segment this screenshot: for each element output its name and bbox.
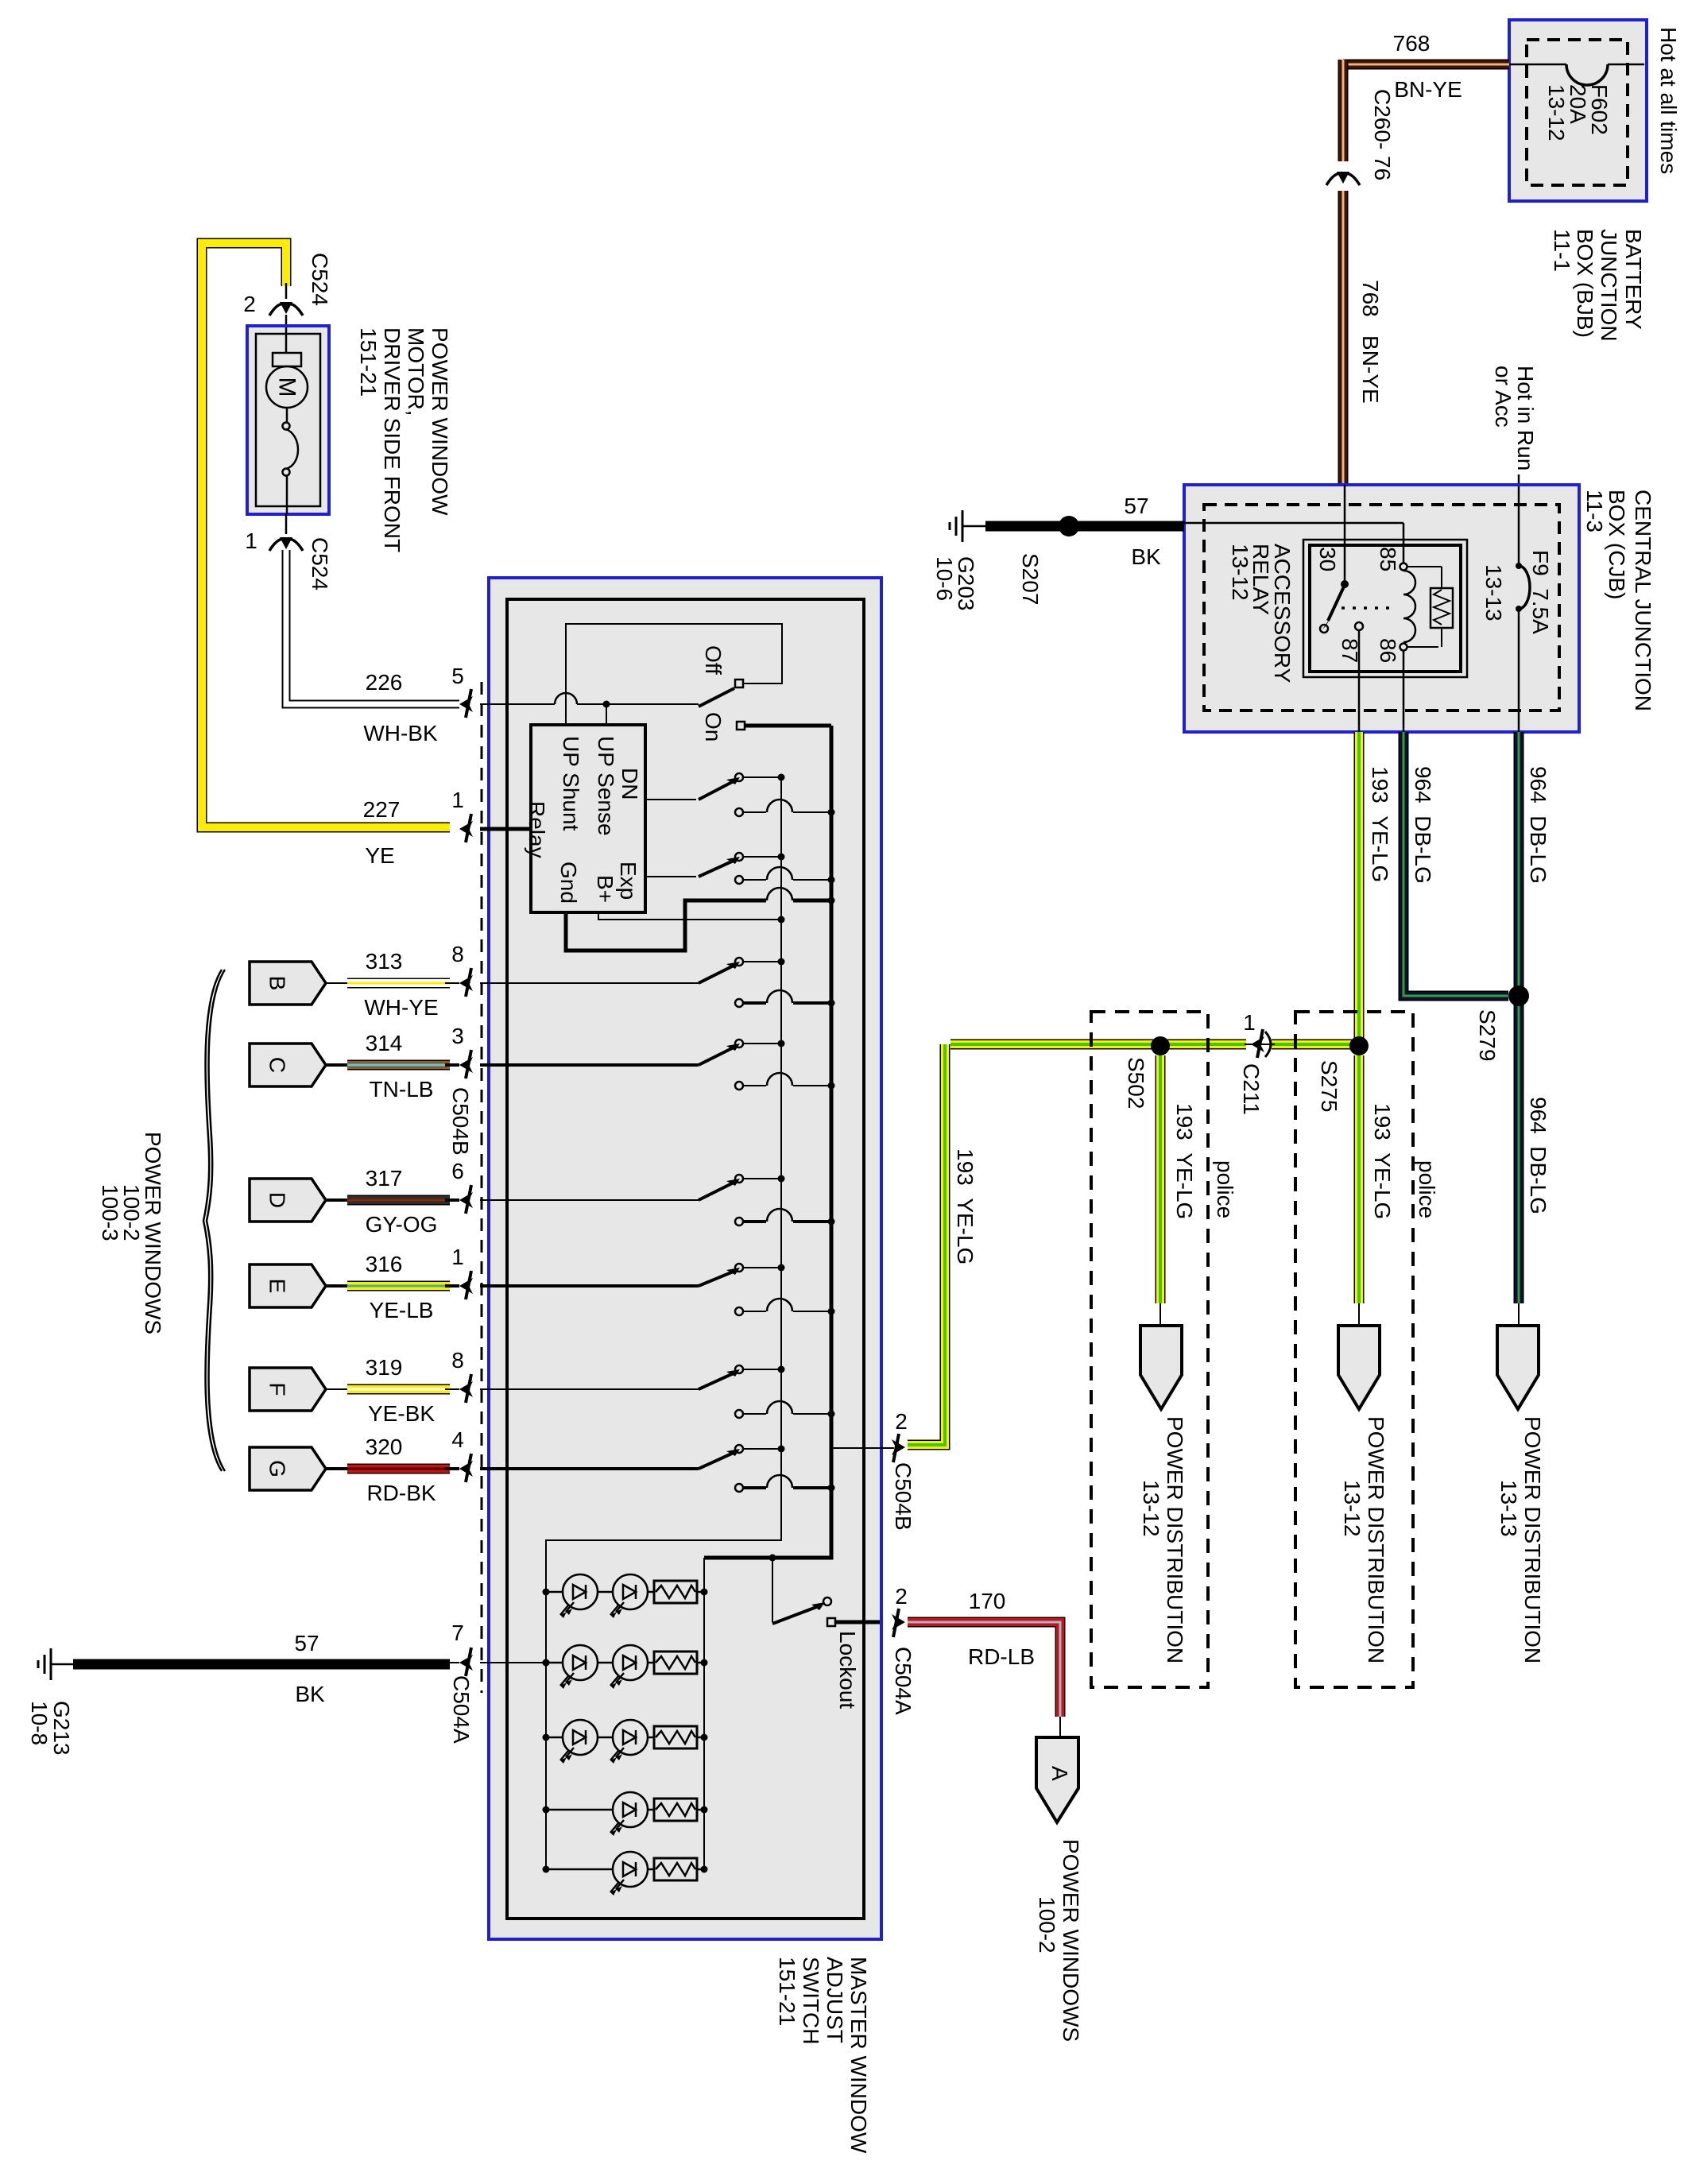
svg-text:RD-BK: RD-BK xyxy=(366,1481,436,1505)
svg-text:C504A: C504A xyxy=(449,1675,474,1744)
switch pin 4 arrow wire 320 xyxy=(466,1454,471,1482)
LED cathode collector line xyxy=(703,1558,705,1869)
accessory relay inner box xyxy=(1310,545,1461,672)
svg-text:13-12: 13-12 xyxy=(1340,1480,1365,1537)
svg-text:4: 4 xyxy=(451,1427,464,1452)
svg-text:JUNCTION: JUNCTION xyxy=(1597,229,1621,342)
window switch 1 xyxy=(699,780,735,800)
svg-text:SWITCH: SWITCH xyxy=(799,1957,823,2044)
svg-text:B: B xyxy=(265,976,290,991)
motor thermal breaker xyxy=(286,408,288,423)
svg-text:151-21: 151-21 xyxy=(356,327,381,397)
wire stub from Hot in Run to CJB xyxy=(1518,474,1520,486)
CJB dashed inner box xyxy=(1204,505,1559,711)
svg-text:BOX (CJB): BOX (CJB) xyxy=(1605,490,1629,599)
switch pin 1 arrow wire 316 xyxy=(466,1271,471,1299)
svg-text:S275: S275 xyxy=(1317,1060,1341,1112)
connector A xyxy=(1059,1717,1061,1737)
svg-text:UP Shunt: UP Shunt xyxy=(559,736,583,831)
connector B wire 313 WH-YE xyxy=(250,962,326,1005)
window switch 6 xyxy=(480,1284,699,1288)
svg-text:1: 1 xyxy=(245,529,257,553)
wire 964 DB-LG from fuse F9 xyxy=(1514,732,1524,1303)
relay Gnd connection to bus2 xyxy=(566,900,766,951)
wire 227 YE loop xyxy=(202,243,450,827)
svg-text:964 DB-LG: 964 DB-LG xyxy=(1411,766,1435,884)
Off contact and loop to UP Shunt xyxy=(735,680,743,687)
svg-text:Off: Off xyxy=(701,645,726,675)
svg-text:On: On xyxy=(701,712,726,742)
indicator LED row 2 xyxy=(543,1659,550,1667)
svg-text:2: 2 xyxy=(243,292,256,316)
switch pin 1 arrow xyxy=(466,814,471,842)
svg-text:193 YE-LG: 193 YE-LG xyxy=(1172,1103,1197,1219)
svg-text:BK: BK xyxy=(1131,544,1161,569)
svg-text:5: 5 xyxy=(451,664,464,688)
connector C504 dashed boundary xyxy=(481,682,483,1693)
svg-text:F9 7.5A: F9 7.5A xyxy=(1528,550,1553,634)
svg-text:C504B: C504B xyxy=(448,1087,473,1156)
svg-text:B+: B+ xyxy=(593,875,618,903)
svg-text:WH-YE: WH-YE xyxy=(364,995,438,1020)
svg-text:YE: YE xyxy=(365,843,394,868)
svg-text:BN-YE: BN-YE xyxy=(1394,77,1462,102)
brace POWER WINDOWS group xyxy=(203,970,222,1471)
splice S207 xyxy=(1059,516,1079,536)
wire 768 BN-YE horizontal from BJB xyxy=(1343,60,1509,70)
svg-text:Lockout: Lockout xyxy=(835,1631,860,1709)
indicator LED row 4 xyxy=(543,1806,550,1814)
svg-text:ADJUST: ADJUST xyxy=(823,1957,847,2043)
svg-text:police: police xyxy=(1415,1160,1439,1218)
svg-text:POWER DISTRIBUTION: POWER DISTRIBUTION xyxy=(1163,1416,1187,1663)
power window motor box xyxy=(247,326,329,514)
svg-text:YE-LB: YE-LB xyxy=(370,1298,434,1322)
lockout switch xyxy=(772,1558,773,1622)
svg-text:13-12: 13-12 xyxy=(1544,84,1569,141)
svg-text:YE-BK: YE-BK xyxy=(368,1401,435,1426)
motor brush block xyxy=(285,327,288,353)
svg-text:11-3: 11-3 xyxy=(1582,490,1607,532)
switch pin 2 C504A arrow to 170 xyxy=(893,1609,899,1637)
wire 964 DB-LG from relay 86 xyxy=(1403,732,1508,996)
ground G213 xyxy=(50,1648,52,1680)
svg-text:BOX (BJB): BOX (BJB) xyxy=(1573,229,1597,338)
svg-text:13-13: 13-13 xyxy=(1481,564,1506,622)
svg-text:M: M xyxy=(274,378,300,397)
svg-text:13-12: 13-12 xyxy=(1139,1480,1163,1537)
wire pin 1 to Relay terminal xyxy=(480,827,531,831)
motor M circle xyxy=(266,366,308,408)
svg-text:C524: C524 xyxy=(308,253,332,306)
indicator LED row 1 xyxy=(543,1589,550,1596)
relay DN output xyxy=(645,799,696,800)
svg-text:MASTER WINDOW: MASTER WINDOW xyxy=(846,1957,871,2154)
svg-text:GY-OG: GY-OG xyxy=(366,1212,438,1237)
On-Off switch arm xyxy=(699,688,734,707)
svg-text:11-1: 11-1 xyxy=(1550,229,1574,272)
wire 193 YE-LG S502 branch down xyxy=(1156,1055,1166,1303)
wire 226 WH-BK xyxy=(286,550,459,704)
svg-text:193 YE-LG: 193 YE-LG xyxy=(953,1148,978,1264)
svg-text:S207: S207 xyxy=(1018,553,1043,605)
svg-text:319: 319 xyxy=(366,1355,403,1380)
fuse F9 wire xyxy=(1518,486,1520,566)
relay coil xyxy=(1403,523,1405,563)
svg-text:151-21: 151-21 xyxy=(775,1957,799,2026)
svg-text:768: 768 xyxy=(1393,31,1431,56)
svg-text:Hot in Run: Hot in Run xyxy=(1513,366,1538,470)
connector C211 xyxy=(1245,1044,1275,1045)
svg-text:2: 2 xyxy=(895,1584,908,1609)
svg-text:227: 227 xyxy=(363,797,401,822)
wire 57 BK inside CJB xyxy=(1184,522,1403,525)
svg-text:CENTRAL JUNCTION: CENTRAL JUNCTION xyxy=(1631,490,1655,711)
relay switch arm 30-87 xyxy=(1328,585,1345,621)
svg-text:police: police xyxy=(1213,1160,1237,1218)
svg-text:6: 6 xyxy=(451,1159,464,1183)
switch pin 5 arrow xyxy=(466,689,471,718)
connector C wire 314 TN-LB xyxy=(250,1044,326,1086)
svg-text:Hot at all times: Hot at all times xyxy=(1656,27,1681,174)
connector E wire 316 YE-LB xyxy=(250,1264,326,1307)
svg-text:F: F xyxy=(265,1382,290,1396)
connector C524 pin 1 symbol xyxy=(269,539,284,551)
svg-text:E: E xyxy=(265,1279,290,1294)
power distribution arrow S502 branch xyxy=(1160,1303,1161,1326)
switch inner case xyxy=(507,599,864,1919)
splice S275 xyxy=(1349,1036,1369,1055)
svg-text:226: 226 xyxy=(366,670,403,695)
svg-text:100-3: 100-3 xyxy=(98,1184,122,1241)
svg-text:1: 1 xyxy=(1243,1010,1256,1035)
svg-text:13-12: 13-12 xyxy=(1228,544,1252,601)
window switch 4 xyxy=(480,1063,699,1067)
wire 768 BN-YE vertical upper segment xyxy=(1338,60,1349,161)
window switch 5 xyxy=(480,1199,699,1201)
police dashed box S502 xyxy=(1091,1012,1208,1687)
svg-text:13-13: 13-13 xyxy=(1496,1480,1521,1537)
wire pin 87 down xyxy=(1358,630,1361,732)
svg-text:POWER WINDOWS: POWER WINDOWS xyxy=(1059,1839,1083,2042)
svg-text:C260- 76: C260- 76 xyxy=(1370,89,1395,180)
power distribution arrow 13-13 xyxy=(1518,1303,1520,1326)
window switch 3 xyxy=(480,982,699,984)
svg-text:G: G xyxy=(265,1460,290,1477)
svg-text:85: 85 xyxy=(1376,547,1400,571)
svg-text:1: 1 xyxy=(451,788,464,812)
bus1 LED feed line xyxy=(546,776,781,1869)
svg-text:30: 30 xyxy=(1315,547,1340,571)
accessory relay outer box xyxy=(1303,540,1467,677)
svg-text:BK: BK xyxy=(295,1682,325,1706)
svg-text:G213: G213 xyxy=(49,1701,74,1756)
switch pin 3 arrow wire 314 xyxy=(466,1050,471,1078)
wire 57 BK to CJB xyxy=(985,521,1184,532)
wire 768 BN-YE vertical lower segment xyxy=(1338,191,1349,485)
svg-text:313: 313 xyxy=(366,949,403,974)
svg-text:C504A: C504A xyxy=(891,1647,916,1715)
switch pin 6 arrow wire 317 xyxy=(466,1185,471,1214)
svg-text:or Acc: or Acc xyxy=(1491,366,1516,428)
switch pin 8 arrow wire 319 xyxy=(466,1374,471,1403)
relay B+ connection to bus1 xyxy=(598,912,781,920)
wire 170 RD-LB xyxy=(908,1622,1060,1717)
splice S502 xyxy=(1151,1036,1170,1055)
wire pin 30 from BN-YE xyxy=(1344,485,1346,583)
switch pin 2 C504B arrow to 193 xyxy=(831,1447,894,1449)
connector C524 pin 2 symbol xyxy=(269,304,284,316)
svg-text:WH-BK: WH-BK xyxy=(363,721,438,745)
svg-text:DN: DN xyxy=(618,768,642,800)
police dashed box S275 xyxy=(1295,1012,1413,1687)
indicator LED row 5 xyxy=(543,1866,550,1873)
window switch 7 xyxy=(480,1388,699,1390)
svg-text:320: 320 xyxy=(366,1435,403,1459)
svg-text:A: A xyxy=(1047,1766,1072,1781)
relay coil suppression resistor xyxy=(1407,566,1442,567)
svg-text:100-2: 100-2 xyxy=(1035,1896,1059,1954)
switch pin 8 arrow wire 313 xyxy=(466,968,471,997)
svg-text:C211: C211 xyxy=(1239,1063,1264,1115)
svg-text:768 BN-YE: 768 BN-YE xyxy=(1358,280,1383,404)
wire pin 86 down xyxy=(1403,650,1405,732)
svg-text:C: C xyxy=(265,1057,290,1073)
wire 193 YE-LG to master switch xyxy=(908,1044,945,1445)
svg-text:8: 8 xyxy=(451,1348,464,1373)
svg-text:S279: S279 xyxy=(1475,1009,1500,1061)
svg-text:POWER WINDOW: POWER WINDOW xyxy=(428,327,452,516)
battery junction box BJB xyxy=(1509,20,1647,201)
up-down relay block xyxy=(531,725,645,912)
svg-text:Exp: Exp xyxy=(616,862,641,900)
wire 193 YE-LG horizontal run xyxy=(950,1040,1246,1050)
svg-text:86: 86 xyxy=(1376,638,1400,663)
fuse F602 symbol xyxy=(1509,64,1566,66)
relay Exp output xyxy=(645,876,696,877)
svg-text:3: 3 xyxy=(451,1024,464,1048)
svg-text:D: D xyxy=(265,1192,290,1208)
svg-text:57: 57 xyxy=(294,1631,319,1655)
wire 193 YE-LG from relay 87 xyxy=(1354,732,1365,1046)
svg-text:POWER DISTRIBUTION: POWER DISTRIBUTION xyxy=(1520,1416,1545,1663)
svg-text:C504B: C504B xyxy=(891,1462,916,1531)
master window adjust switch box xyxy=(489,578,881,1939)
svg-text:POWER DISTRIBUTION: POWER DISTRIBUTION xyxy=(1364,1416,1388,1663)
fuse F9 symbol xyxy=(1516,563,1522,569)
svg-text:C524: C524 xyxy=(308,537,332,591)
svg-text:BATTERY: BATTERY xyxy=(1621,229,1646,330)
connector D wire 317 GY-OG xyxy=(250,1179,326,1222)
splice S279 xyxy=(1508,986,1529,1006)
svg-text:MOTOR,: MOTOR, xyxy=(404,327,428,416)
motor pin 2 lead xyxy=(285,283,288,299)
svg-text:7: 7 xyxy=(451,1621,464,1645)
On contact to bus2 xyxy=(737,722,745,730)
relay actuation dotted link xyxy=(1341,606,1392,610)
svg-text:316: 316 xyxy=(366,1252,403,1276)
wire 57 BK to switch pin 7 xyxy=(73,1659,450,1670)
central junction box CJB xyxy=(1184,485,1579,732)
connector F wire 319 YE-BK xyxy=(250,1368,326,1411)
motor pin 1 lead xyxy=(285,514,288,534)
svg-text:57: 57 xyxy=(1124,494,1148,518)
svg-text:10-6: 10-6 xyxy=(932,556,957,601)
svg-text:2: 2 xyxy=(895,1409,908,1434)
svg-text:964 DB-LG: 964 DB-LG xyxy=(1526,1097,1551,1214)
svg-text:Gnd: Gnd xyxy=(556,862,581,904)
svg-text:193 YE-LG: 193 YE-LG xyxy=(1370,1103,1395,1219)
svg-text:S502: S502 xyxy=(1124,1057,1148,1109)
svg-text:193 YE-LG: 193 YE-LG xyxy=(1368,766,1392,882)
svg-text:317: 317 xyxy=(366,1166,403,1191)
svg-text:170: 170 xyxy=(969,1589,1006,1613)
connector C260 arrow xyxy=(1326,173,1341,185)
indicator LED row 3 xyxy=(543,1734,550,1741)
svg-text:10-8: 10-8 xyxy=(27,1701,52,1745)
fuse F602 dashed box xyxy=(1527,40,1628,185)
svg-text:UP Sense: UP Sense xyxy=(594,736,618,836)
svg-text:DRIVER SIDE FRONT: DRIVER SIDE FRONT xyxy=(380,327,405,552)
relay contact 87 xyxy=(1355,622,1363,630)
ground G203 xyxy=(962,510,964,542)
wire pin 5 to up-down relay xyxy=(480,703,555,705)
svg-text:1: 1 xyxy=(451,1245,464,1269)
window switch 2 xyxy=(699,860,735,877)
svg-text:RD-LB: RD-LB xyxy=(968,1644,1035,1669)
switch pin 7 arrow ground xyxy=(466,1648,471,1676)
svg-text:8: 8 xyxy=(451,942,464,966)
connector G wire 320 RD-BK xyxy=(250,1447,326,1490)
svg-text:314: 314 xyxy=(366,1031,403,1055)
wire 193 YE-LG S275 branch down xyxy=(1354,1055,1365,1303)
svg-text:964 DB-LG: 964 DB-LG xyxy=(1526,766,1551,884)
power distribution arrow S275 branch xyxy=(1358,1303,1360,1326)
window switch 8 xyxy=(480,1467,699,1470)
bus2 accessory line xyxy=(704,726,831,1558)
svg-text:TN-LB: TN-LB xyxy=(370,1077,434,1102)
